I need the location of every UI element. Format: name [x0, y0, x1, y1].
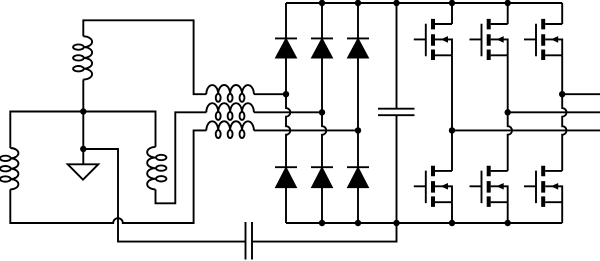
- node: ground node: [80, 146, 86, 152]
- node: phase C rectifier input: [355, 127, 361, 133]
- diode D1 cathode bar: [275, 37, 297, 39]
- wire: L1 top to phase-A filter feed: [83, 20, 206, 94]
- transistor Q2 (top leg 2): [470, 19, 508, 60]
- diode D6 cathode bar: [347, 166, 369, 168]
- node: bottom rail / leg 2: [319, 220, 325, 226]
- wire: rectifier leg 1 vertical (hops over phases B and C): [286, 3, 290, 223]
- wire: L2 bottom along bottom left to phase-C filter feed (hop over ground wire): [10, 130, 206, 223]
- diode D6 triangle: [348, 168, 368, 187]
- wire: rectifier leg 2 vertical (hops over phase C): [322, 3, 326, 223]
- diode D4 triangle: [276, 168, 296, 187]
- wire: DC link capacitor leads: [396, 3, 398, 223]
- transistor Q1 (top leg 1): [414, 19, 452, 60]
- node: top rail / Q2 drain: [505, 0, 511, 6]
- wire: output phase W: [452, 129, 600, 131]
- capacitor C2 (coupling) plates: [246, 222, 253, 260]
- diode D5 cathode bar: [311, 166, 333, 168]
- node: bottom rail / Q5 source: [505, 220, 511, 226]
- filter inductor Lf1 (phase A): [206, 85, 254, 94]
- filter inductor Lf3 (phase C): [206, 121, 254, 130]
- node: phase B rectifier input: [319, 109, 325, 115]
- wire: phase A to rectifier leg 1: [254, 93, 286, 95]
- wire: rectifier leg 3 vertical: [357, 3, 359, 223]
- capacitor C1 (DC link) plates: [378, 109, 415, 116]
- transistor Q6 (bottom leg 3): [524, 166, 562, 207]
- node: output U: [559, 91, 565, 97]
- wire: DC- bottom rail: [286, 222, 562, 224]
- node: bottom rail / DC cap: [393, 220, 399, 226]
- wire: output phase V: [508, 111, 600, 113]
- wire: DC+ top rail: [286, 2, 562, 4]
- wire: ground node branch down to coupling capacitor: [83, 149, 246, 242]
- diode D2 triangle: [312, 39, 332, 57]
- diode D4 cathode bar: [275, 166, 297, 168]
- wire: output phase U: [562, 93, 600, 95]
- diode D3 cathode bar: [347, 37, 369, 39]
- wire: inverter leg 1 vertical: [451, 3, 453, 223]
- node: phase A rectifier input: [283, 91, 289, 97]
- node: bottom rail / leg 3: [355, 220, 361, 226]
- generator winding L3: [147, 147, 155, 190]
- node: top rail / leg 3: [355, 0, 361, 6]
- generator winding L1: [83, 36, 92, 79]
- transistor Q4 (bottom leg 1): [414, 166, 452, 207]
- node: output W: [449, 127, 455, 133]
- diode D5 triangle: [312, 168, 332, 187]
- node: neutral bus / L1: [80, 108, 86, 114]
- wire: inverter leg 3 vertical (hops over outputs V and W): [562, 3, 566, 223]
- wire: L3 bottom up to phase-B filter feed: [156, 112, 207, 203]
- node: top rail / leg 2: [319, 0, 325, 6]
- wire: neutral bus to L2 and L3 tops: [10, 112, 155, 149]
- wire: phase B to rectifier leg 2: [254, 111, 322, 113]
- node: output V: [505, 109, 511, 115]
- node: top rail / Q1 drain: [449, 0, 455, 6]
- diode D3 triangle: [348, 39, 368, 57]
- transistor Q3 (top leg 3): [524, 19, 562, 60]
- filter inductor Lf2 (phase B): [206, 103, 254, 112]
- node: top rail / DC cap: [393, 0, 399, 6]
- diode D1 triangle: [276, 39, 296, 57]
- transistor Q5 (bottom leg 2): [470, 166, 508, 207]
- node: bottom rail / Q4 source: [449, 220, 455, 226]
- wire: L1 bottom through neutral bus to ground node: [82, 80, 84, 165]
- generator winding L2: [10, 148, 18, 189]
- wire: phase C to rectifier leg 3: [254, 129, 358, 131]
- wire: coupling capacitor return to DC- rail: [252, 223, 397, 242]
- ground: [68, 164, 99, 179]
- diode D2 cathode bar: [311, 37, 333, 39]
- wire: inverter leg 2 vertical (hops over output W): [508, 3, 512, 223]
